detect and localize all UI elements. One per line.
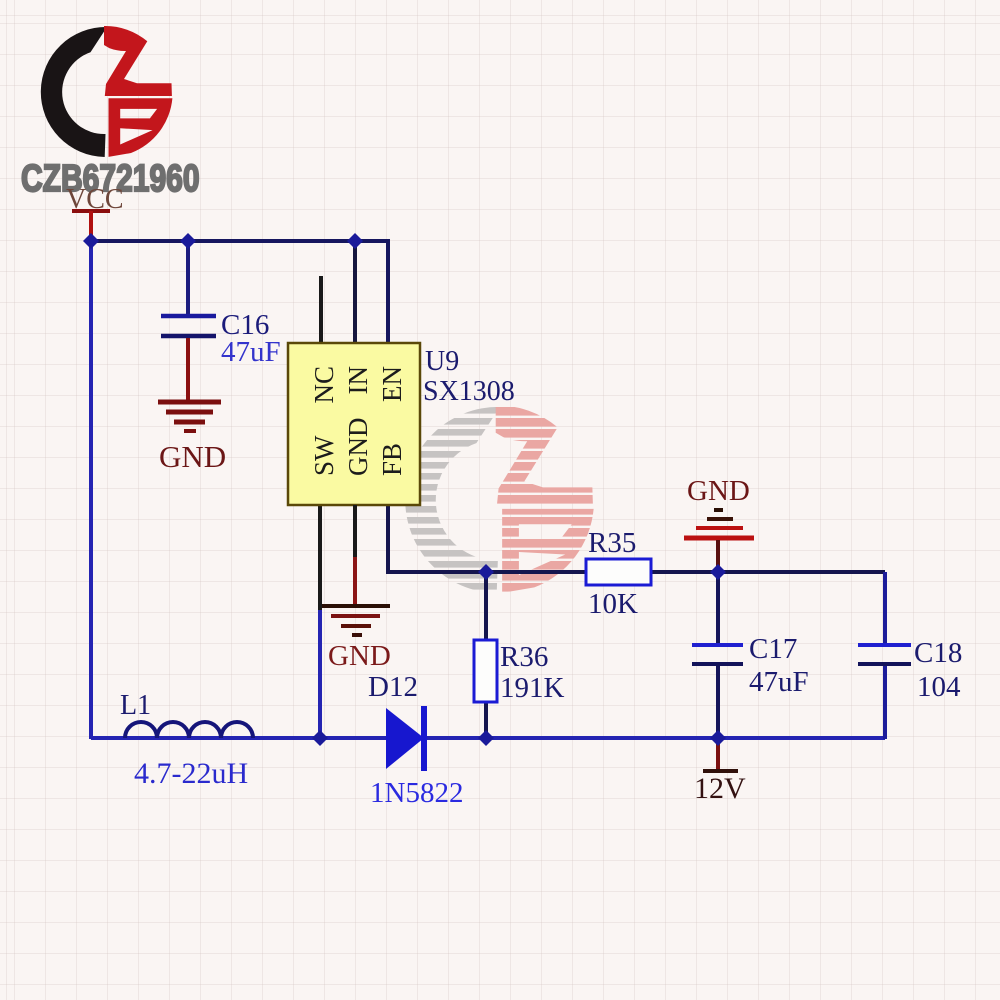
svg-text:47uF: 47uF [749, 666, 809, 698]
svg-text:R36: R36 [500, 641, 548, 673]
svg-text:104: 104 [917, 671, 961, 703]
svg-text:FB: FB [377, 443, 407, 476]
svg-text:SW: SW [309, 435, 339, 476]
svg-text:SX1308: SX1308 [423, 376, 515, 407]
svg-text:EN: EN [377, 366, 407, 402]
svg-text:GND: GND [343, 418, 373, 477]
svg-text:U9: U9 [425, 346, 459, 377]
svg-text:191K: 191K [500, 672, 565, 704]
svg-text:R35: R35 [588, 527, 636, 559]
svg-text:L1: L1 [120, 690, 151, 721]
svg-text:C17: C17 [749, 633, 797, 665]
svg-text:12V: 12V [694, 772, 746, 805]
svg-text:GND: GND [687, 475, 750, 507]
svg-text:1N5822: 1N5822 [370, 777, 463, 809]
svg-text:C18: C18 [914, 637, 962, 669]
svg-text:GND: GND [159, 439, 226, 474]
svg-text:NC: NC [309, 366, 339, 404]
svg-text:D12: D12 [368, 671, 418, 703]
svg-text:10K: 10K [588, 588, 638, 620]
svg-text:IN: IN [343, 366, 373, 395]
svg-text:47uF: 47uF [221, 336, 281, 368]
svg-text:GND: GND [328, 640, 391, 672]
svg-text:4.7-22uH: 4.7-22uH [134, 757, 248, 790]
